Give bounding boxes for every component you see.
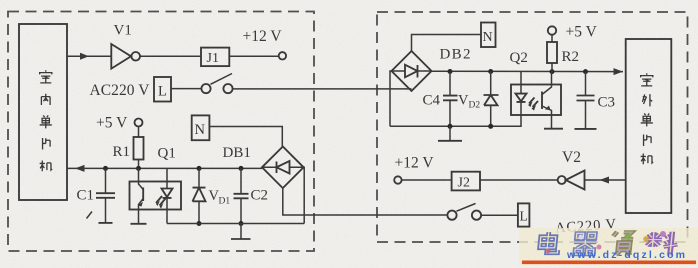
ground bar under Q1 emitter <box>131 223 147 225</box>
wire MCU to V1 input <box>67 55 111 57</box>
wire terminal to J2 <box>402 179 452 181</box>
optocoupler Q2 <box>511 72 561 129</box>
indoor MCU box 室内单片机 <box>19 24 67 200</box>
arrow into outdoor MCU <box>614 68 624 75</box>
long wire indoor switch to DB2 AC input <box>233 88 412 90</box>
+12V terminal (outdoor) <box>394 176 401 183</box>
inverter V2 <box>558 171 585 190</box>
indoor 0V rail <box>167 223 304 225</box>
junction C2-rail <box>239 221 244 226</box>
DB2 left point to 0V rail <box>390 71 392 126</box>
wire L to switch <box>171 88 201 90</box>
indoor ground <box>231 224 251 240</box>
arrow on V2 input wire <box>600 177 610 184</box>
indoor bus wire to MCU input <box>67 167 262 169</box>
resistor R2 <box>547 35 557 72</box>
junction C4-rail <box>448 124 453 129</box>
junction VD2-bus <box>488 69 493 74</box>
neutral box N (outdoor) <box>481 23 496 48</box>
zener VD2 <box>484 72 499 127</box>
wire V1 to J1 <box>140 55 201 57</box>
watermark 电 <box>539 232 559 253</box>
watermark 器 <box>573 233 598 254</box>
junction C2-bus <box>239 166 244 171</box>
arrow into indoor MCU <box>75 165 85 172</box>
junction VD1-rail <box>197 221 202 226</box>
resistor R1 <box>134 127 144 169</box>
zener VD1 <box>193 168 206 223</box>
neutral box N (indoor) <box>192 115 210 140</box>
outdoor unit dashed enclosure <box>377 12 688 242</box>
junction R2-bus <box>550 69 555 74</box>
outdoor ground <box>438 126 462 141</box>
capacitor C3 <box>575 72 597 129</box>
switch S1 (indoor) <box>201 74 232 94</box>
ground bar under Q2 emitter <box>544 128 563 130</box>
DB1 AC output to outdoor switch <box>283 188 448 215</box>
relay J1 <box>201 48 229 67</box>
inverter V1 <box>111 44 140 69</box>
junction VD1-bus <box>197 166 202 171</box>
junction VD2-rail <box>488 124 493 129</box>
bridge rectifier DB1 <box>262 147 304 189</box>
bridge rectifier DB2 <box>392 51 432 91</box>
wire N to DB1 <box>209 127 282 147</box>
DB2 top to N box <box>412 35 482 52</box>
wire J2 to V2 <box>480 179 558 181</box>
outdoor MCU box 室外单片机 <box>626 39 672 213</box>
live terminal box L (outdoor) <box>518 203 530 226</box>
wire switch to L box <box>481 214 518 216</box>
junction C1-bus <box>103 166 108 171</box>
arrow on V1 input wire <box>80 53 89 60</box>
outdoor +V bus <box>432 70 624 72</box>
capacitor C1 <box>87 168 116 223</box>
+12V terminal <box>279 52 286 59</box>
live terminal box L (indoor) <box>154 77 171 102</box>
relay J2 <box>452 172 480 191</box>
watermark background <box>519 228 698 265</box>
watermark red underline <box>522 261 696 265</box>
watermark 料 <box>643 232 678 256</box>
junction C3-bus <box>583 69 588 74</box>
+5V terminal (indoor) <box>135 119 143 127</box>
outdoor 0V rail <box>390 115 521 126</box>
wire J1 to +12V terminal <box>229 55 278 57</box>
optocoupler Q1 <box>130 168 182 223</box>
watermark colour speckles <box>546 231 667 254</box>
indoor unit dashed enclosure <box>8 12 314 252</box>
junction C4-bus <box>448 69 453 74</box>
watermark 资 <box>611 232 634 256</box>
DB1 right point to rail <box>303 167 306 223</box>
wire MCU to V2 input <box>585 179 626 181</box>
switch S2 (outdoor) <box>447 204 481 220</box>
junction R1-bus <box>136 166 141 171</box>
+5V terminal (outdoor) <box>548 26 556 34</box>
capacitor C2 <box>234 168 249 223</box>
capacitor C4 <box>443 72 458 127</box>
